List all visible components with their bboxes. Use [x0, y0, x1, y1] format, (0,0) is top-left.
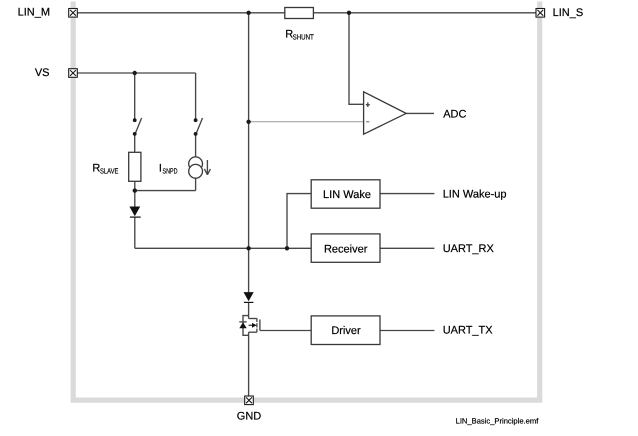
- svg-text:LIN_Basic_Principle.emf: LIN_Basic_Principle.emf: [456, 416, 540, 425]
- svg-text:SHUNT: SHUNT: [293, 33, 315, 42]
- svg-text:ADC: ADC: [443, 109, 466, 121]
- svg-text:VS: VS: [35, 67, 50, 79]
- svg-text:LIN Wake: LIN Wake: [323, 189, 371, 201]
- svg-text:SLAVE: SLAVE: [100, 167, 118, 176]
- svg-text:UART_TX: UART_TX: [443, 325, 494, 337]
- svg-text:Receiver: Receiver: [324, 243, 368, 255]
- svg-text:LIN_S: LIN_S: [553, 7, 584, 19]
- svg-text:SNPD: SNPD: [163, 167, 178, 176]
- svg-text:LIN Wake-up: LIN Wake-up: [443, 189, 507, 201]
- svg-text:I: I: [159, 163, 162, 175]
- svg-text:UART_RX: UART_RX: [443, 243, 495, 255]
- svg-text:LIN_M: LIN_M: [18, 6, 50, 18]
- svg-text:Driver: Driver: [331, 325, 361, 337]
- svg-text:GND: GND: [237, 410, 262, 422]
